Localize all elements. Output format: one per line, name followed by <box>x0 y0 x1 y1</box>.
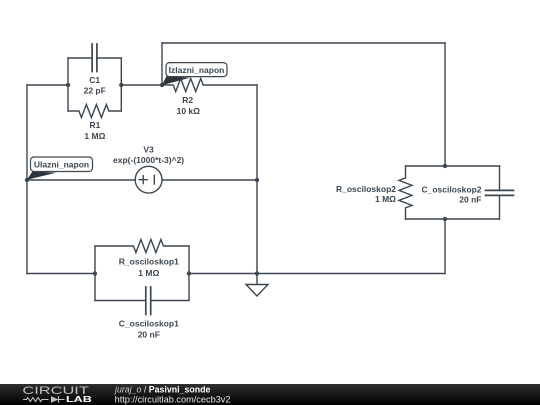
svg-text:Ulazni_napon: Ulazni_napon <box>34 160 89 170</box>
node dot block2 top <box>443 164 447 168</box>
wire Izlazni node riser <box>161 43 163 85</box>
node dot block1 right <box>187 271 191 275</box>
svg-text:juraj_o / Pasivni_sonde: juraj_o / Pasivni_sonde <box>114 385 210 395</box>
wire top rail <box>162 42 445 44</box>
wire C1 block top edge <box>68 57 121 59</box>
resistor R_osciloskop1 <box>95 240 189 253</box>
svg-text:C1: C1 <box>89 75 100 85</box>
node dot Ulazni <box>25 178 29 182</box>
svg-text:C_osciloskop2: C_osciloskop2 <box>422 184 482 194</box>
block2 bottom edge <box>406 218 500 220</box>
wire top rail drop to block2 <box>444 43 446 166</box>
wire left rail bottom to block1 <box>27 273 95 275</box>
wire left rail vertical <box>26 85 28 274</box>
capacitor C1 block left edge <box>67 58 69 111</box>
capacitor C1 plates <box>92 44 97 72</box>
node dot C1 left <box>66 83 70 87</box>
logo diode <box>51 396 59 402</box>
resistor R_osciloskop1 block right edge <box>188 246 190 301</box>
svg-text:Izlazni_napon: Izlazni_napon <box>169 65 225 75</box>
svg-text:R_osciloskop2: R_osciloskop2 <box>336 184 396 194</box>
resistor R_osciloskop1 block left edge <box>94 246 96 301</box>
svg-text:20 nF: 20 nF <box>459 194 481 204</box>
V3 minus bar <box>153 175 155 184</box>
wire block2 bottom drop <box>444 219 446 274</box>
wire Ulazni node to V3 <box>27 179 135 181</box>
wire C1 block to Izlazni node <box>121 84 162 86</box>
ground <box>246 285 268 297</box>
voltage source V3 <box>135 166 162 193</box>
svg-text:exp(-(1000*t-3)^2): exp(-(1000*t-3)^2) <box>113 155 184 165</box>
svg-text:LAB: LAB <box>66 395 92 404</box>
capacitor C_osciloskop1 plates <box>146 287 151 315</box>
svg-text:R2: R2 <box>182 95 193 105</box>
node dot ground <box>255 271 259 275</box>
svg-text:http://circuitlab.com/cecb3v2: http://circuitlab.com/cecb3v2 <box>115 394 231 404</box>
resistor R_osciloskop2 <box>399 166 412 219</box>
flag Ulazni_napon <box>27 157 93 180</box>
resistor R2 <box>162 79 257 92</box>
wire left rail to C1 block <box>27 84 68 86</box>
wire V3 right to mid column <box>162 179 257 181</box>
node dot Izlazni <box>160 83 164 87</box>
svg-text:22 pF: 22 pF <box>84 86 106 96</box>
svg-text:1 MΩ: 1 MΩ <box>84 131 105 141</box>
svg-text:1 MΩ: 1 MΩ <box>138 268 159 278</box>
node dot block1 left <box>93 271 97 275</box>
svg-text:R1: R1 <box>89 120 100 130</box>
block2 top edge <box>406 165 500 167</box>
capacitor C1 block right edge <box>120 58 122 111</box>
node dot C1 right <box>119 83 123 87</box>
svg-text:R_osciloskop1: R_osciloskop1 <box>119 257 179 267</box>
flag Izlazni_napon <box>162 63 227 86</box>
svg-text:20 nF: 20 nF <box>138 330 160 340</box>
svg-text:C_osciloskop1: C_osciloskop1 <box>119 319 179 329</box>
capacitor C_osciloskop2 plates <box>486 190 514 195</box>
wire bottom rail <box>189 273 445 275</box>
node dot block2 bottom <box>443 217 447 221</box>
logo resistor zigzag <box>23 398 48 402</box>
V3 plus sign <box>139 176 147 184</box>
block2 right edge <box>499 166 501 219</box>
svg-text:V3: V3 <box>143 144 154 154</box>
svg-text:10 kΩ: 10 kΩ <box>177 106 201 116</box>
wire mid column <box>256 85 258 285</box>
svg-text:1 MΩ: 1 MΩ <box>375 194 396 204</box>
resistor R1 <box>68 105 121 118</box>
wire block1 bottom edge <box>95 300 189 302</box>
node dot mid V3 <box>255 178 259 182</box>
